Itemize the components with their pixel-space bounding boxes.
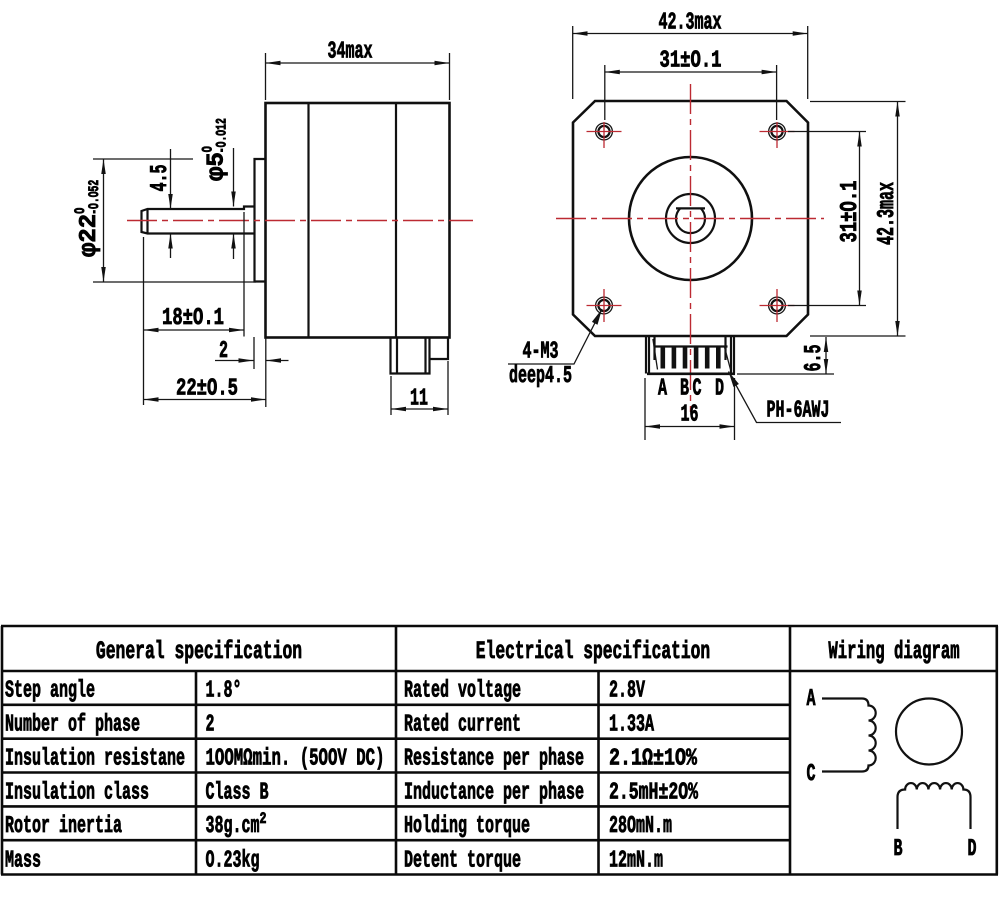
dimension 31±0.1 (right) — [788, 131, 866, 133]
svg-text:Wiring diagram: Wiring diagram — [828, 637, 959, 666]
svg-text:B: B — [894, 836, 903, 863]
svg-text:D: D — [715, 376, 724, 403]
side view: connector step block — [430, 338, 449, 359]
svg-text:Inductance per phase: Inductance per phase — [404, 779, 584, 806]
svg-text:Step angle: Step angle — [5, 678, 95, 705]
leader PH-6AWJ — [729, 372, 739, 388]
svg-text:C: C — [693, 376, 702, 403]
svg-text:Rated current: Rated current — [404, 712, 521, 739]
svg-text:22±O.5: 22±O.5 — [176, 376, 238, 403]
svg-text:O.23kg: O.23kg — [206, 848, 260, 875]
svg-text:2.8V: 2.8V — [609, 678, 645, 705]
svg-text:42.3max: 42.3max — [874, 182, 901, 245]
front view: bearing boss circle — [666, 194, 715, 243]
dimension 11 (connector length) — [390, 376, 392, 415]
dimension 18±0.1 — [143, 237, 145, 405]
svg-text:2.5mH±2O%: 2.5mH±2O% — [609, 779, 698, 806]
svg-text:φ5O-O.O12: φ5O-O.O12 — [201, 118, 231, 181]
svg-text:42.3max: 42.3max — [659, 10, 722, 37]
svg-text:2.1Ω±1O%: 2.1Ω±1O% — [609, 746, 697, 773]
svg-text:deep4.5: deep4.5 — [509, 363, 572, 390]
svg-text:Insulation resistane: Insulation resistane — [5, 746, 185, 773]
svg-text:Electrical specification: Electrical specification — [476, 637, 710, 666]
front view: red center crosshair — [556, 218, 824, 220]
svg-text:General specification: General specification — [96, 637, 302, 666]
wiring: phase B-D coil — [898, 783, 971, 829]
svg-text:C: C — [807, 761, 816, 788]
side view: shaft with flat — [142, 207, 255, 234]
svg-text:34max: 34max — [328, 39, 373, 66]
svg-text:Detent torque: Detent torque — [404, 848, 521, 875]
svg-text:2: 2 — [206, 712, 215, 739]
svg-text:Number of phase: Number of phase — [5, 712, 140, 739]
dimension phi5 shaft — [233, 148, 235, 207]
svg-text:31±O.1: 31±O.1 — [837, 181, 864, 243]
dimension 22±0.5 — [144, 399, 266, 401]
svg-text:28OmN.m: 28OmN.m — [609, 813, 672, 840]
wiring: rotor circle — [896, 699, 962, 765]
front view: square flange outline with chamfers — [573, 101, 808, 336]
svg-text:16: 16 — [681, 402, 699, 429]
svg-text:Class B: Class B — [206, 779, 269, 806]
dimension 42.3max (top) — [572, 26, 574, 99]
svg-text:4.5: 4.5 — [147, 165, 174, 192]
dimension 31±0.1 (top) — [604, 65, 606, 120]
dimension 2 (boss thickness) — [253, 337, 255, 369]
side view: connector housing below body — [391, 338, 430, 374]
leader 4-M3 deep4.5 — [592, 309, 602, 325]
side view: motor body outline — [266, 103, 450, 338]
svg-text:2: 2 — [219, 338, 228, 365]
svg-text:38g.cm2: 38g.cm2 — [206, 810, 267, 840]
svg-text:Mass: Mass — [5, 848, 41, 875]
front view: PH connector housing — [645, 337, 647, 374]
side view: front pilot boss plate — [255, 159, 266, 282]
svg-text:18±O.1: 18±O.1 — [162, 305, 224, 332]
mounting hole 2 — [769, 123, 786, 140]
mounting hole 1 — [596, 123, 613, 140]
table gridlines — [1, 626, 998, 875]
svg-text:Insulation class: Insulation class — [5, 779, 149, 806]
side view: red centerline — [127, 220, 473, 222]
svg-text:1.8°: 1.8° — [206, 678, 242, 705]
svg-text:Holding torque: Holding torque — [404, 813, 530, 840]
svg-text:1.33A: 1.33A — [609, 712, 654, 739]
dimension 42.3max (right) — [810, 101, 906, 103]
svg-text:PH-6AWJ: PH-6AWJ — [767, 398, 830, 425]
dimension phi22 — [93, 158, 193, 160]
svg-text:11: 11 — [410, 386, 428, 413]
side view: body section line 2 — [395, 103, 397, 338]
svg-text:1OOMΩmin. (5OOV DC): 1OOMΩmin. (5OOV DC) — [206, 746, 385, 773]
mounting hole 3 — [596, 297, 613, 314]
mounting hole 4 — [769, 297, 786, 314]
dimension 34max — [265, 53, 267, 100]
side view: body section line 1 — [307, 103, 309, 338]
svg-text:Rotor inertia: Rotor inertia — [5, 813, 122, 840]
connector pins — [661, 347, 666, 369]
front view: shaft circle with flat — [676, 208, 705, 233]
svg-text:12mN.m: 12mN.m — [609, 848, 663, 875]
dimension 4.5 (shaft flat) — [170, 149, 172, 209]
svg-text:φ22O-O.O52: φ22O-O.O52 — [73, 180, 103, 257]
dimension 6.5 (connector height) — [737, 373, 834, 375]
svg-text:D: D — [968, 836, 977, 863]
svg-text:4-M3: 4-M3 — [523, 339, 559, 366]
svg-text:A: A — [658, 376, 667, 403]
svg-text:Resistance per phase: Resistance per phase — [404, 746, 584, 773]
svg-text:31±O.1: 31±O.1 — [660, 48, 722, 75]
svg-text:A: A — [807, 686, 816, 713]
front view: pilot boss circle — [629, 157, 752, 280]
svg-text:Rated voltage: Rated voltage — [404, 678, 521, 705]
svg-text:B: B — [680, 376, 689, 403]
dimension 16 (connector width) — [644, 378, 646, 440]
svg-text:6.5: 6.5 — [801, 345, 828, 372]
